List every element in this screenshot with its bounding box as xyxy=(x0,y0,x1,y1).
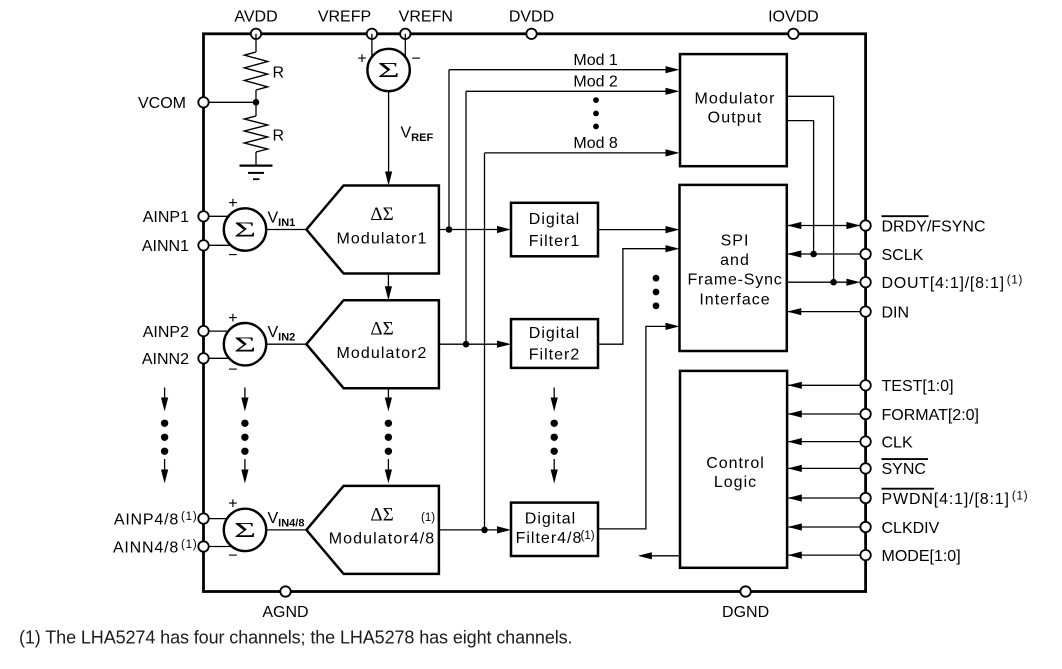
wire mod1 riser to Mod line xyxy=(448,70,450,230)
svg-text:−: − xyxy=(412,50,421,67)
pin DVDD xyxy=(526,29,536,39)
delta-sigma modulator Modulator2 xyxy=(306,300,439,388)
svg-text:ΔΣ: ΔΣ xyxy=(370,204,393,225)
svg-text:Filter1: Filter1 xyxy=(529,233,580,250)
svg-text:VREFN: VREFN xyxy=(399,8,453,25)
ellipsis dots filter-to-SPI xyxy=(653,275,660,282)
junction node mod1 output xyxy=(446,226,453,233)
ellipsis column summers xyxy=(244,388,246,399)
svg-text:CLKDIV: CLKDIV xyxy=(882,520,940,537)
svg-text:Mod 2: Mod 2 xyxy=(573,74,618,91)
wire Modulator1 output to filter xyxy=(439,229,499,231)
pin DOUT xyxy=(860,277,870,287)
svg-text:SYNC: SYNC xyxy=(882,461,926,478)
pin AINP4/8 xyxy=(198,513,208,523)
svg-text:Modulator4/8: Modulator4/8 xyxy=(329,531,436,548)
wire Modulator1 to Modulator2 arrow xyxy=(387,274,389,288)
pin MODE[1:0] xyxy=(860,550,870,560)
wire Modulator4/8 output to filter xyxy=(439,529,499,531)
pin AINP2 xyxy=(198,326,208,336)
svg-text:ΔΣ: ΔΣ xyxy=(370,319,393,340)
wire VCOM pin to junction xyxy=(204,101,257,103)
wire VIN1 summer to modulator xyxy=(266,229,306,231)
pin AINN2 xyxy=(198,353,208,363)
pin DIN xyxy=(860,306,870,316)
wire R1 to node VCOM xyxy=(255,90,257,116)
svg-text:AINP2: AINP2 xyxy=(143,324,189,341)
wire Modulator2 output to filter xyxy=(439,343,499,345)
summer S1 (sigma) xyxy=(224,208,266,250)
svg-text:+: + xyxy=(228,310,237,327)
wire Filter4/8 to SPI xyxy=(598,326,666,529)
pin VREFN xyxy=(400,29,410,39)
svg-text:AINP1: AINP1 xyxy=(143,209,189,226)
svg-text:(1): (1) xyxy=(581,530,595,542)
svg-text:Filter2: Filter2 xyxy=(529,347,580,364)
digital filter block Filter4/8 xyxy=(511,503,598,556)
wire AVDD to R1 xyxy=(255,34,257,52)
pin CLK xyxy=(860,436,870,446)
wire Control Logic output arrow left xyxy=(650,555,680,557)
pin AVDD xyxy=(251,29,261,39)
pin IOVDD xyxy=(788,29,798,39)
node VCOM junction xyxy=(253,99,260,106)
ellipsis column channels left (outside border) xyxy=(164,388,166,399)
wire CLKDIV input xyxy=(788,526,861,528)
resistor R1 xyxy=(244,52,267,90)
wire DOUT output xyxy=(787,281,846,283)
svg-text:Mod 1: Mod 1 xyxy=(573,52,618,69)
wire SCLK input xyxy=(787,253,860,255)
ellipsis column filters xyxy=(553,388,555,399)
svg-text:SCLK: SCLK xyxy=(882,247,924,264)
svg-text:Modulator1: Modulator1 xyxy=(336,230,427,247)
svg-text:FORMAT[2:0]: FORMAT[2:0] xyxy=(882,407,980,424)
svg-text:TEST[1:0]: TEST[1:0] xyxy=(882,378,954,395)
wire VREF arrow to Modulator1 xyxy=(388,91,390,172)
svg-text:−: − xyxy=(228,547,237,564)
svg-text:Logic: Logic xyxy=(714,474,757,491)
svg-text:Filter4/8: Filter4/8 xyxy=(516,530,583,547)
svg-text:AINN2: AINN2 xyxy=(142,351,189,368)
svg-text:SPI: SPI xyxy=(721,232,750,249)
wire Mod 2 to Modulator Output xyxy=(466,90,666,92)
svg-text:AVDD: AVDD xyxy=(234,8,277,25)
svg-text:DOUT[4:1]/[8:1](1): DOUT[4:1]/[8:1](1) xyxy=(882,275,1024,293)
pin TEST[1:0] xyxy=(860,380,870,390)
svg-text:Modulator: Modulator xyxy=(694,90,775,107)
wire AINP1 to summer S1 xyxy=(209,215,245,217)
block SPI and Frame-Sync Interface xyxy=(680,185,787,351)
svg-text:VCOM: VCOM xyxy=(138,95,186,112)
summer U-REF (sigma) xyxy=(367,49,409,91)
wire mod2 riser to Mod line xyxy=(465,91,467,344)
svg-text:CLK: CLK xyxy=(882,434,913,451)
wire AINN4/8 to summer S3 xyxy=(209,546,245,548)
wire PWDN[4:1]/[8:1] input xyxy=(788,497,861,499)
wire Mod 8 to Modulator Output xyxy=(485,152,667,154)
ellipsis column modulators xyxy=(387,388,389,398)
svg-text:Output: Output xyxy=(708,110,763,127)
svg-text:(1): (1) xyxy=(421,512,435,524)
wire CLK input xyxy=(788,441,861,443)
svg-text:DGND: DGND xyxy=(722,604,769,621)
pin SYNC xyxy=(860,463,870,473)
wire AINN1 to summer S1 xyxy=(209,244,245,246)
wire VREFN to summer xyxy=(404,34,406,70)
pin AINP1 xyxy=(198,211,208,221)
pin AGND xyxy=(280,586,290,596)
block Control Logic xyxy=(680,371,787,568)
wire TEST[1:0] input xyxy=(788,384,861,386)
svg-text:+: + xyxy=(357,50,366,67)
svg-text:Mod 8: Mod 8 xyxy=(573,135,618,152)
digital filter block Filter1 xyxy=(511,203,598,256)
wire Filter1 to SPI xyxy=(598,229,666,231)
svg-text:Interface: Interface xyxy=(699,291,770,308)
ground symbol xyxy=(240,165,273,167)
wire SYNC input xyxy=(788,467,861,469)
wire VIN2 summer to modulator xyxy=(266,343,306,345)
chip boundary border xyxy=(204,34,866,592)
delta-sigma modulator Modulator4/8 xyxy=(306,486,439,574)
wire DRDY/FSYNC bidirectional xyxy=(787,225,860,227)
resistor R2 xyxy=(244,116,267,152)
pin AINN4/8 xyxy=(198,541,208,551)
svg-text:Digital: Digital xyxy=(525,511,576,528)
pin DRDY/FSYNC xyxy=(860,220,870,230)
svg-text:DIN: DIN xyxy=(882,304,910,321)
wire AINP4/8 to summer S3 xyxy=(209,518,245,520)
pin CLKDIV xyxy=(860,522,870,532)
svg-text:+: + xyxy=(228,496,237,513)
svg-text:Σ: Σ xyxy=(234,333,256,356)
svg-text:PWDN[4:1]/[8:1](1): PWDN[4:1]/[8:1](1) xyxy=(882,490,1029,508)
svg-text:and: and xyxy=(720,252,750,269)
pin VREFP xyxy=(367,29,377,39)
wire AINN2 to summer S2 xyxy=(209,357,245,359)
svg-text:Frame-Sync: Frame-Sync xyxy=(687,272,782,289)
pin SCLK xyxy=(860,249,870,259)
junction node mod3 output xyxy=(481,527,488,534)
svg-text:AGND: AGND xyxy=(262,604,308,621)
wire AINP2 to summer S2 xyxy=(209,330,245,332)
svg-text:MODE[1:0]: MODE[1:0] xyxy=(882,548,961,565)
wire VREFP to summer xyxy=(371,34,373,70)
svg-text:R: R xyxy=(273,65,285,82)
svg-text:Digital: Digital xyxy=(529,325,580,342)
wire Modulator Output to SCLK net xyxy=(787,121,814,254)
pin PWDN[4:1]/[8:1] xyxy=(860,493,870,503)
svg-text:Digital: Digital xyxy=(529,211,580,228)
svg-text:Σ: Σ xyxy=(234,519,256,542)
svg-text:R: R xyxy=(273,128,285,145)
svg-text:+: + xyxy=(228,195,237,212)
junction node mod2 output xyxy=(463,341,470,348)
svg-text:−: − xyxy=(228,247,237,264)
digital filter block Filter2 xyxy=(511,319,598,368)
svg-text:IOVDD: IOVDD xyxy=(768,8,819,25)
svg-text:−: − xyxy=(228,362,237,379)
summer S3 (sigma) xyxy=(224,509,266,551)
svg-text:Modulator2: Modulator2 xyxy=(336,345,427,362)
wire VIN3 summer to modulator xyxy=(266,529,306,531)
wire MODE[1:0] input xyxy=(788,554,861,556)
ellipsis dots Mod lines xyxy=(593,97,599,103)
junction node DOUT net xyxy=(830,279,837,286)
svg-text:Σ: Σ xyxy=(234,218,256,241)
svg-text:AINN1: AINN1 xyxy=(142,238,189,255)
svg-text:VREFP: VREFP xyxy=(318,8,371,25)
summer S2 (sigma) xyxy=(224,323,266,365)
svg-text:ΔΣ: ΔΣ xyxy=(370,504,393,525)
junction node SCLK net xyxy=(810,251,817,258)
svg-text:DRDY/FSYNC: DRDY/FSYNC xyxy=(882,218,986,235)
pin FORMAT[2:0] xyxy=(860,409,870,419)
block Modulator Output xyxy=(680,54,787,166)
svg-text:Control: Control xyxy=(706,455,765,472)
wire R2 to ground xyxy=(255,152,257,166)
svg-text:Σ: Σ xyxy=(378,59,400,82)
pin VCOM xyxy=(198,97,208,107)
wire DIN input xyxy=(787,311,860,313)
delta-sigma modulator Modulator1 xyxy=(306,186,439,274)
pin DGND xyxy=(740,586,750,596)
svg-text:DVDD: DVDD xyxy=(509,8,554,25)
pin AINN1 xyxy=(198,240,208,250)
wire Mod 1 to Modulator Output xyxy=(449,69,666,71)
wire FORMAT[2:0] input xyxy=(788,413,861,415)
wire mod3 riser to Mod line xyxy=(484,153,486,530)
svg-text:(1) The LHA5274 has four chann: (1) The LHA5274 has four channels; the L… xyxy=(19,628,572,648)
wire Modulator Output to DOUT net xyxy=(787,96,834,282)
wire Filter2 to SPI xyxy=(598,249,666,345)
